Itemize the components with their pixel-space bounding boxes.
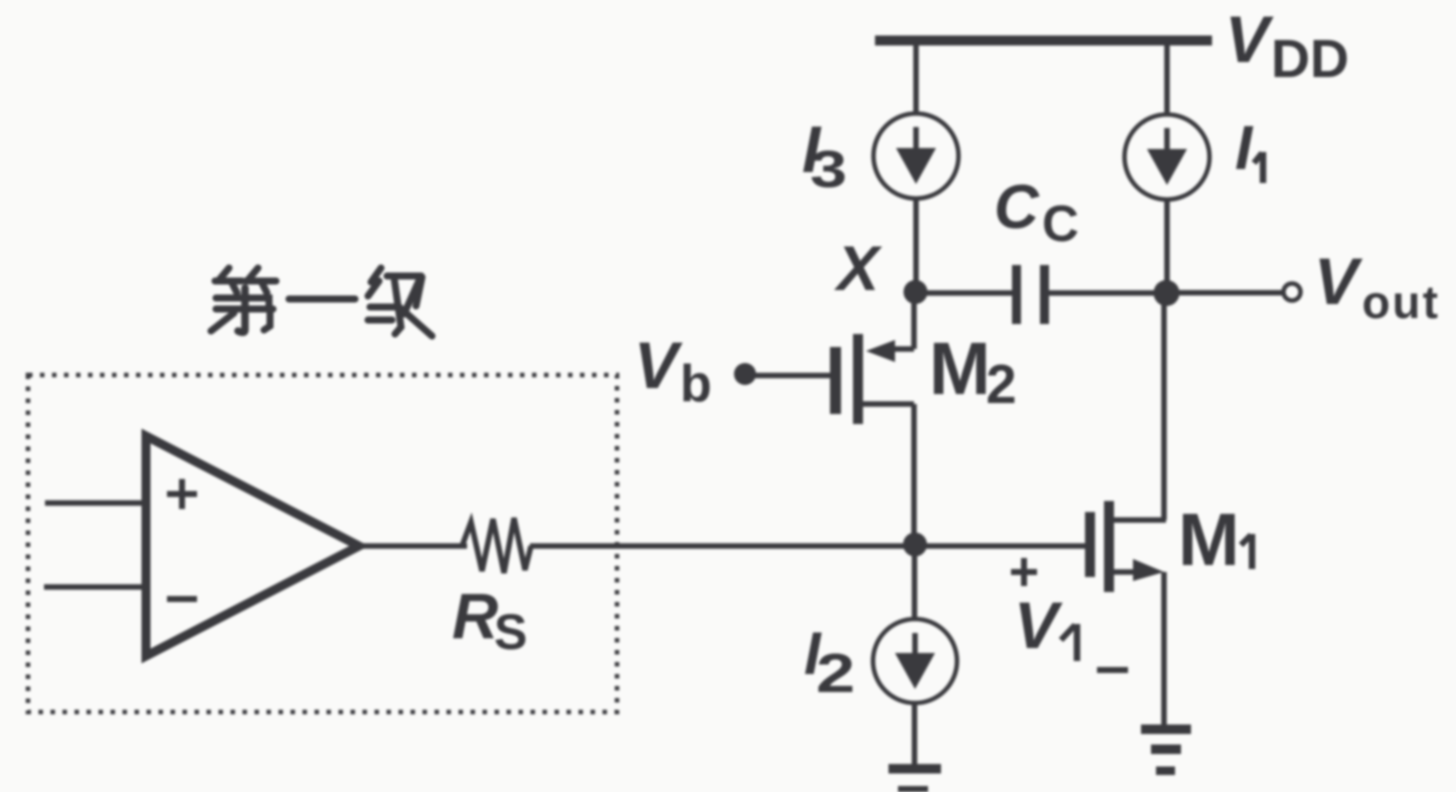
svg-text:V: V bbox=[634, 328, 683, 402]
svg-text:R: R bbox=[452, 580, 498, 652]
svg-text:V: V bbox=[1314, 244, 1363, 318]
svg-text:DD: DD bbox=[1271, 29, 1349, 89]
svg-text:out: out bbox=[1362, 276, 1440, 328]
svg-text:V: V bbox=[1225, 2, 1274, 76]
svg-text:V: V bbox=[1014, 588, 1063, 662]
svg-text:C: C bbox=[994, 173, 1040, 242]
svg-text:2: 2 bbox=[986, 353, 1017, 415]
svg-text:2: 2 bbox=[816, 643, 855, 704]
svg-text:M: M bbox=[1178, 498, 1240, 581]
svg-text:X: X bbox=[834, 234, 883, 304]
svg-text:3: 3 bbox=[810, 140, 847, 198]
svg-text:S: S bbox=[494, 604, 527, 660]
svg-text:C: C bbox=[1042, 195, 1079, 252]
svg-text:I: I bbox=[1235, 114, 1254, 183]
svg-text:b: b bbox=[680, 355, 712, 413]
svg-text:M: M bbox=[929, 327, 991, 410]
